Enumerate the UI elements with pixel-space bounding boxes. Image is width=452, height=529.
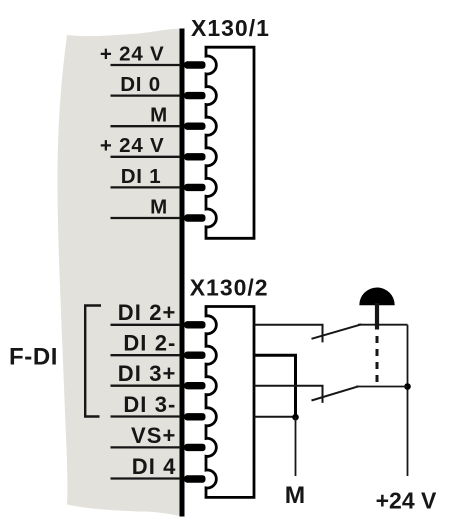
- pin 3 X130/1: [184, 123, 205, 130]
- switch S1 blade: [312, 324, 362, 339]
- svg-text:+ 24 V: + 24 V: [100, 134, 165, 157]
- svg-text:M: M: [150, 195, 168, 218]
- svg-text:X130/2: X130/2: [190, 274, 269, 300]
- wire DI 2+ (pin 1, X130/2): [111, 324, 181, 326]
- emergency stop button head: [359, 288, 394, 306]
- pin 1 X130/1: [184, 61, 205, 68]
- emergency stop stem: [375, 303, 379, 330]
- wire DI 2+ to switch S1: [254, 325, 323, 343]
- wire DI 3- (pin 4, X130/2): [111, 415, 181, 417]
- svg-text:+ 24 V: + 24 V: [100, 42, 165, 65]
- svg-text:DI 2-: DI 2-: [123, 331, 176, 356]
- pin 5 X130/1: [184, 184, 205, 191]
- svg-text:F-DI: F-DI: [9, 344, 58, 371]
- wire switch S1 to +24 V rail: [358, 324, 408, 326]
- +24 V rail: [407, 325, 409, 476]
- wire M (pin 3, X130/1): [111, 125, 181, 127]
- pin 2 X130/2: [184, 352, 205, 359]
- wire switch S2 to junction: [356, 386, 408, 388]
- pin 1 X130/2: [184, 321, 205, 328]
- bus line (module boundary): [180, 29, 185, 517]
- F-DI bracket: [85, 306, 101, 417]
- actuator link (dashed): [376, 336, 379, 384]
- pin 4 X130/1: [184, 153, 205, 160]
- pin 6 X130/2: [184, 475, 205, 482]
- pin 6 X130/1: [184, 214, 205, 221]
- connector X130/2 body: [206, 307, 254, 498]
- svg-text:DI 1: DI 1: [121, 165, 162, 188]
- junction M node: [292, 414, 299, 421]
- wire +24 V (pin 4, X130/1): [111, 156, 181, 158]
- wire DI 3- to M node: [254, 416, 296, 418]
- wire +24 V (pin 1, X130/1): [111, 64, 181, 66]
- switch S2 blade: [312, 386, 359, 400]
- svg-text:DI 0: DI 0: [120, 73, 161, 96]
- wire DI 0 (pin 2, X130/1): [111, 94, 181, 96]
- wire DI 4 (pin 6, X130/2): [111, 477, 181, 479]
- wire M node down: [295, 417, 297, 476]
- svg-text:DI 4: DI 4: [132, 454, 177, 479]
- pin 4 X130/2: [184, 413, 205, 420]
- svg-text:DI 3-: DI 3-: [123, 392, 176, 417]
- wire DI 2- to M node: [254, 355, 296, 417]
- svg-text:DI 3+: DI 3+: [118, 361, 177, 386]
- wire DI 3+ to switch S2: [254, 386, 323, 403]
- pin 3 X130/2: [184, 382, 205, 389]
- wire VS+ (pin 5, X130/2): [111, 446, 181, 448]
- pin 2 X130/1: [184, 92, 205, 99]
- pin 5 X130/2: [184, 444, 205, 451]
- device outline band: [57, 29, 181, 517]
- svg-text:M: M: [150, 104, 168, 127]
- svg-text:VS+: VS+: [131, 423, 177, 448]
- wire DI 1 (pin 5, X130/1): [111, 186, 181, 188]
- connector X130/1 body: [206, 47, 254, 238]
- wire M (pin 6, X130/1): [111, 217, 181, 219]
- svg-text:X130/1: X130/1: [191, 15, 270, 41]
- junction on +24 V rail: [404, 383, 411, 390]
- svg-text:+24 V: +24 V: [376, 488, 437, 514]
- wire DI 3+ (pin 3, X130/2): [111, 385, 181, 387]
- wire DI 2- (pin 2, X130/2): [111, 354, 181, 356]
- svg-text:DI 2+: DI 2+: [118, 300, 177, 325]
- svg-text:M: M: [285, 482, 305, 509]
